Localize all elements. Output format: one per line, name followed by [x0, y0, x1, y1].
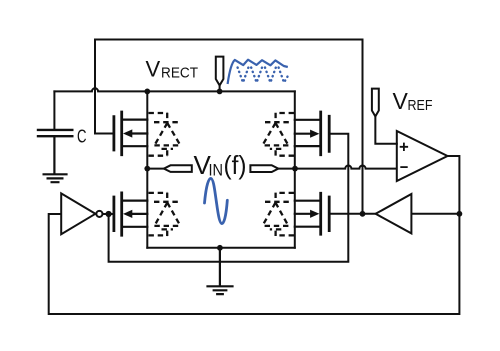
node dot VIN left [144, 166, 150, 172]
probe VRECT (vertical) [219, 85, 221, 91]
ground (below capacitor) [44, 136, 67, 182]
svg-text:(f): (f) [224, 150, 247, 180]
transistor M4 (bottom-right, mirrored) [295, 193, 329, 234]
diode D2 (body diode of M2, dashed) [149, 193, 181, 236]
wire VRECT rail with hop over x=95 [54, 88, 294, 91]
wire bottom rail [147, 247, 294, 249]
node dot right gate node [360, 211, 366, 217]
label VREF [393, 88, 433, 114]
wire left bus (VRECT to bottom rail) [146, 91, 148, 247]
ground (center) [208, 248, 233, 294]
svg-text:V: V [146, 56, 161, 81]
node dot ground tap [217, 245, 223, 251]
svg-text:IN: IN [209, 161, 224, 180]
wire left gate-drive vertical + gate stub M1 [95, 40, 113, 134]
label C [77, 126, 87, 147]
inverter U2 (left, with bubble) [61, 193, 95, 234]
diode D3 (body diode of M3, dashed) [262, 113, 294, 156]
label + (U1 non-inverting) [401, 144, 408, 151]
wire top rail (gate drive top-left to top-right) [95, 39, 363, 41]
wire inverter output bubble to M2 gate [102, 213, 113, 215]
label VIN(f) [194, 150, 247, 180]
waveform: rectified ripple (blue solid) [228, 60, 288, 84]
node dot left gate node [106, 211, 112, 217]
svg-text:C: C [77, 126, 87, 147]
bubble of U2 [96, 211, 102, 217]
transistor M1 (top-left) [114, 112, 147, 155]
wire right rail vertical down to bottom-right gate node [362, 40, 364, 214]
wire right bus [294, 91, 296, 247]
node dot VIN right [292, 166, 298, 172]
probe VIN right (horizontal, points right) [278, 168, 295, 170]
capacitor C1 plates [38, 130, 72, 136]
wire comparator output down to bottom rail, across, up to inverter input [49, 156, 460, 314]
wire VREF probe to U1 plus input [375, 116, 396, 143]
label VRECT [146, 56, 199, 81]
diode D4 (body diode of M4, dashed) [262, 193, 294, 236]
probe VIN left (horizontal, points left) [147, 168, 164, 170]
buffer U3 (right, points left) [376, 194, 412, 233]
label - (U1 inverting) [401, 166, 407, 168]
transistor M3 (top-right, mirrored) [295, 112, 329, 155]
svg-text:RECT: RECT [161, 65, 198, 81]
node dot buffer input tap [457, 211, 463, 217]
wire cross-coupling: bottom-left gate node down, across, up to M3 gate [109, 134, 349, 262]
probe VREF [372, 89, 379, 117]
wire gate stub M4 to right gate node and buffer output [329, 213, 375, 215]
op-amp U1 (comparator) [397, 131, 448, 181]
node dot VRECT probe [217, 89, 223, 95]
waveform: rectified sine dips (blue dotted Vs) [238, 68, 289, 83]
wire capacitor top lead [53, 91, 55, 129]
wire node wire to comparator minus with hops over x=348.3 and x=362.5 [295, 166, 397, 169]
svg-text:REF: REF [408, 97, 433, 114]
node dot VRECT-left bus [144, 89, 150, 95]
diode D1 (body diode of M1, dashed) [149, 113, 181, 156]
wire buffer U3 input from output riser [411, 213, 459, 215]
transistor M2 (bottom-left) [114, 193, 147, 235]
waveform: input sine (blue) [205, 178, 228, 223]
svg-text:V: V [393, 88, 409, 114]
